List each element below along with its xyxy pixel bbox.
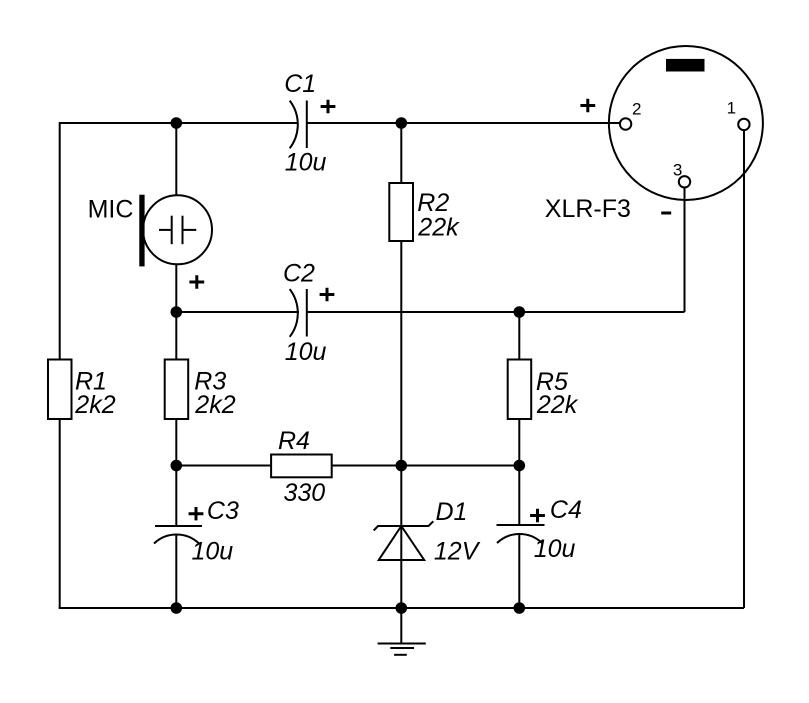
svg-text:330: 330 (284, 479, 326, 507)
svg-text:MIC: MIC (88, 195, 134, 223)
svg-text:1: 1 (727, 98, 736, 117)
svg-text:C4: C4 (550, 496, 582, 524)
svg-text:C1: C1 (284, 70, 316, 98)
svg-text:10u: 10u (285, 149, 327, 177)
svg-text:10u: 10u (192, 538, 234, 566)
svg-text:2: 2 (632, 100, 641, 119)
svg-text:2k2: 2k2 (194, 391, 235, 419)
svg-text:C3: C3 (207, 497, 239, 525)
svg-text:10u: 10u (534, 535, 576, 563)
svg-text:C2: C2 (283, 260, 315, 288)
svg-text:22k: 22k (417, 214, 460, 242)
svg-text:R4: R4 (278, 427, 310, 455)
svg-text:2k2: 2k2 (74, 391, 115, 419)
svg-text:22k: 22k (536, 391, 579, 419)
svg-text:D1: D1 (436, 498, 468, 526)
svg-text:3: 3 (673, 160, 682, 179)
svg-text:XLR-F3: XLR-F3 (545, 195, 631, 223)
svg-text:12V: 12V (434, 538, 481, 566)
svg-text:10u: 10u (285, 338, 327, 366)
